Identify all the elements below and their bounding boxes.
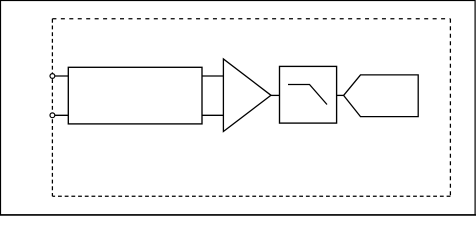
dashed boundary box (left side) [51, 19, 53, 197]
wire: top input terminal to block [52, 75, 68, 77]
amplifier (triangle) [223, 59, 271, 132]
low-pass filter response curve [288, 85, 327, 105]
input terminal (bottom circle) [50, 113, 55, 118]
low-pass filter box [280, 66, 337, 123]
wire: block to amplifier (top) [202, 75, 223, 77]
wire: amplifier to filter [271, 94, 280, 96]
dashed boundary box (bottom side) [52, 195, 450, 197]
input terminal (top circle) [50, 74, 55, 79]
output tag (pentagon) [344, 75, 419, 117]
dashed boundary box (top side) [52, 18, 450, 20]
block (input stage rectangle) [68, 67, 202, 124]
dashed boundary box (right side) [449, 19, 451, 197]
wire: bottom input terminal to block [52, 114, 68, 116]
wire: block to amplifier (bottom) [202, 114, 223, 116]
wire: filter to output tag [337, 94, 344, 96]
